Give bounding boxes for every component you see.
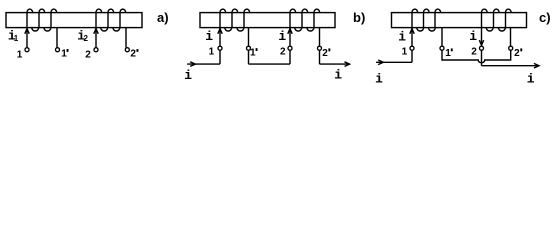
label 2 (c) xyxy=(471,47,477,58)
terminal 1' (b) xyxy=(247,46,251,50)
current label i2 xyxy=(77,29,88,44)
svg-text:i: i xyxy=(205,29,213,44)
wire: left lead of L2a with current arrow xyxy=(94,28,98,48)
winding L1c: turns on core xyxy=(412,9,441,31)
svg-text:i: i xyxy=(278,29,286,44)
wire: right lead of L1b xyxy=(248,28,250,46)
label 2' xyxy=(130,49,138,60)
label 2' (c) xyxy=(514,48,522,59)
svg-text:2: 2 xyxy=(85,50,91,61)
core of transformer (diagram b) xyxy=(200,13,335,28)
terminal 1 (c) xyxy=(410,46,414,50)
wire: left lead of L2c with current arrow xyxy=(479,28,483,46)
label 1' (c) xyxy=(445,48,452,59)
svg-text:1: 1 xyxy=(402,47,408,58)
wire: series link 1'-2' with crossover hop (c) xyxy=(442,50,511,62)
svg-text:1: 1 xyxy=(61,49,67,60)
wire: left lead of L2b with current arrow xyxy=(288,28,292,46)
svg-text:2: 2 xyxy=(322,48,328,59)
svg-text:2: 2 xyxy=(514,48,520,59)
wire: left lead of L1a with current arrow xyxy=(25,28,29,48)
terminal 2' (a) xyxy=(125,48,129,52)
winding L2c: turns on core xyxy=(481,9,511,31)
terminal 2 (b) xyxy=(288,46,292,50)
svg-text:i: i xyxy=(527,72,535,87)
svg-text:i: i xyxy=(398,30,406,45)
svg-text:1: 1 xyxy=(209,47,215,58)
svg-text:1: 1 xyxy=(250,48,256,59)
label 1 (c) xyxy=(402,47,408,58)
label 1' (b) xyxy=(250,48,258,59)
svg-text:2: 2 xyxy=(471,47,477,58)
svg-text:i: i xyxy=(469,29,477,44)
svg-text:1: 1 xyxy=(445,48,451,59)
current label i (winding 2 c) xyxy=(469,29,477,44)
label 2 xyxy=(85,50,91,61)
wire: output lead (b) xyxy=(320,50,350,66)
terminal 2' (b) xyxy=(318,46,322,50)
svg-text:2: 2 xyxy=(280,47,286,58)
current label i at input (b) xyxy=(184,68,192,83)
svg-text:1: 1 xyxy=(17,50,23,61)
current label i at output (b) xyxy=(334,68,342,83)
terminal 2' (c) xyxy=(509,46,513,50)
svg-text:i: i xyxy=(184,68,192,83)
wire: right lead of L2a xyxy=(125,28,127,48)
current label i (winding 1 c) xyxy=(398,30,406,45)
wire: input lead (b) xyxy=(187,50,220,66)
current label i1 xyxy=(8,29,19,44)
wire: left lead of L1b with current arrow xyxy=(218,28,222,46)
terminal 1 (b) xyxy=(218,46,222,50)
label 1 (b) xyxy=(209,47,215,58)
wire: right lead of L1c xyxy=(441,28,443,46)
winding L1b: turns on core xyxy=(220,9,250,31)
wire: output lead from terminal 2 (c) xyxy=(482,50,540,68)
wire: input lead (c) xyxy=(376,50,412,64)
wire: series link 1'-2 (b) xyxy=(249,50,291,64)
wire: right lead of L1a xyxy=(56,28,58,48)
terminal 1 (a) xyxy=(25,48,29,52)
svg-text:2: 2 xyxy=(84,34,89,43)
core of transformer (diagram a) xyxy=(6,13,142,28)
label 1 xyxy=(17,50,23,61)
label 2 (b) xyxy=(280,47,286,58)
terminal 1' (c) xyxy=(440,46,444,50)
current label i (winding 1 b) xyxy=(205,29,213,44)
winding L2a: turns on core xyxy=(96,9,126,31)
wire: right lead of L2b xyxy=(319,28,321,46)
wire: right lead of L2c xyxy=(510,28,512,46)
core of transformer (diagram c) xyxy=(392,13,527,28)
svg-text:i: i xyxy=(334,68,342,83)
svg-text:c): c) xyxy=(539,10,551,25)
svg-text:1: 1 xyxy=(14,34,19,43)
wire: left lead of L1c with current arrow xyxy=(410,28,414,46)
current label i (winding 2 b) xyxy=(278,29,286,44)
terminal 1' (a) xyxy=(56,48,60,52)
svg-text:b): b) xyxy=(353,10,365,25)
terminal 2 (c) xyxy=(480,46,484,50)
winding L2b: turns on core xyxy=(290,9,320,31)
terminal 2 (a) xyxy=(94,48,98,52)
winding L1a: turns on core xyxy=(27,9,57,31)
current label i at input (c) xyxy=(375,71,383,86)
svg-text:2: 2 xyxy=(130,49,136,60)
svg-text:i: i xyxy=(375,71,383,86)
label 2' (b) xyxy=(322,48,330,59)
svg-text:a): a) xyxy=(157,10,169,25)
current label i at output (c) xyxy=(527,72,535,87)
label 1' xyxy=(61,49,68,60)
